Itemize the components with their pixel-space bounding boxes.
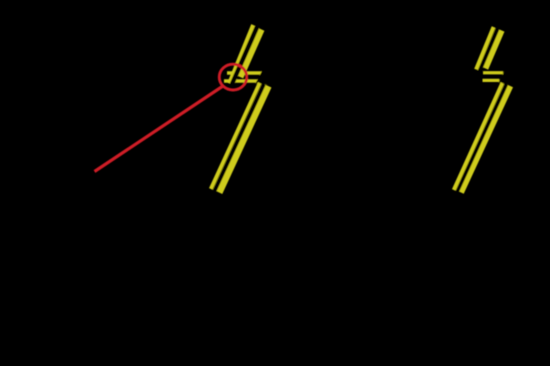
wire W1 lower diagonal gap — [215, 85, 264, 191]
wire W1 upper diagonal left stroke — [229, 25, 253, 84]
annotation pointer line — [95, 86, 224, 172]
wire W2 upper diagonal right stroke — [486, 31, 502, 69]
wire W1 jog lower stroke — [224, 79, 260, 82]
wire W2 lower diagonal gap — [457, 85, 506, 192]
wire W2 jog right-end angled cut — [498, 68, 512, 83]
wire W2 upper diagonal gap — [477, 29, 498, 77]
wire W1 upper diagonal right stroke — [241, 30, 262, 78]
wire W2 upper diagonal left stroke — [476, 27, 494, 70]
wire W1 lower diagonal left stroke — [211, 83, 260, 189]
wire W1 upper diagonal gap — [232, 27, 258, 86]
wire W1 jog upper stroke — [227, 71, 262, 74]
wire W2 jog lower stroke — [483, 79, 500, 82]
wire W2 lower diagonal right stroke — [461, 86, 510, 193]
wire W1 lower diagonal right stroke — [219, 86, 268, 193]
annotation circle highlighting the bad joint — [219, 64, 247, 90]
wire W1 jog right-end angled cut — [255, 68, 272, 84]
wire W2 lower diagonal left stroke — [454, 83, 503, 190]
wire W2 jog upper stroke — [483, 71, 503, 74]
